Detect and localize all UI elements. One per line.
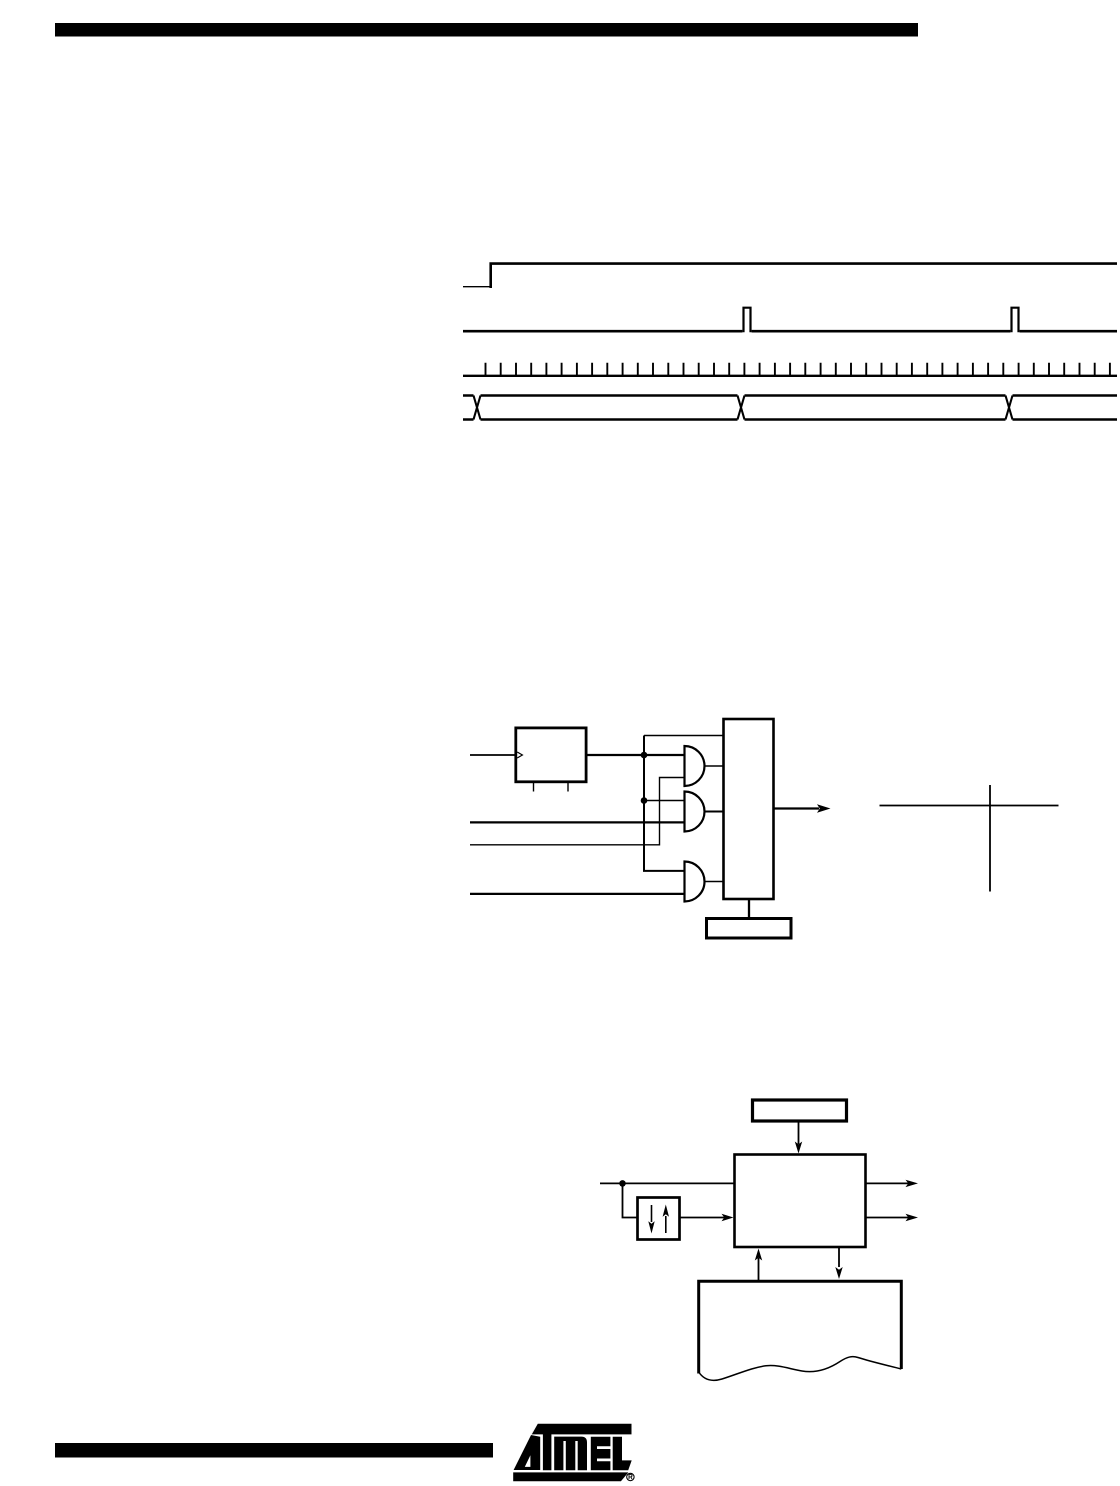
interrupt box — [753, 1100, 847, 1121]
and-gate G3 — [685, 862, 705, 902]
data bus box (torn) — [699, 1281, 902, 1373]
reference cross horizontal line — [880, 805, 1059, 807]
direction box U3 — [638, 1198, 680, 1240]
wire: bus up arrow — [758, 1258, 760, 1280]
wire: input line 3 bent — [470, 778, 684, 845]
Atmel logo: letter A — [514, 1424, 541, 1470]
node: junction dot B — [641, 797, 648, 804]
wire: trace2 low line — [463, 330, 1117, 333]
wire: input line 4 — [470, 893, 684, 895]
reference cross vertical line — [989, 785, 991, 892]
Atmel logo: bottom underline bar — [513, 1472, 628, 1481]
arrowhead: down into bus box — [835, 1267, 842, 1279]
Atmel logo: letter M — [554, 1437, 587, 1471]
and-gate G1 — [685, 746, 705, 786]
wire: trace1 step signal high — [491, 264, 1117, 288]
wire: branch to direction box — [623, 1183, 637, 1217]
Atmel logo: letter E — [591, 1437, 611, 1471]
wire: branch to mux top — [644, 735, 724, 737]
wire: synchronizer output — [587, 754, 685, 756]
wire: clock source line — [600, 1182, 734, 1184]
Atmel logo: letter L — [613, 1437, 632, 1470]
arrowhead: into counter left — [722, 1214, 734, 1221]
torn bottom edge — [699, 1357, 902, 1381]
wire: trace2 pulse 1 — [744, 308, 751, 333]
footer rule bar — [55, 1443, 493, 1458]
wire: input line 2 — [470, 821, 684, 823]
wire: gate2 top input — [644, 800, 684, 802]
synchronizer box U1 — [516, 728, 586, 782]
wire: trace1 low stub — [463, 286, 490, 288]
arrowhead: up into counter — [755, 1249, 762, 1261]
wire: interrupt to counter — [798, 1123, 800, 1145]
wire: gate2 output — [705, 811, 724, 813]
arrowhead: output 1 — [906, 1180, 919, 1187]
down arrow glyph — [651, 1205, 653, 1222]
wire: direction box to counter — [680, 1217, 725, 1219]
bus transition X3 — [1006, 396, 1013, 420]
clock edge chevron — [517, 752, 522, 758]
bus transition X1 — [474, 396, 481, 420]
counter box U4 — [735, 1155, 866, 1248]
wire: counter output 2 — [866, 1217, 909, 1219]
wire: mux output — [774, 807, 820, 809]
wire: bus top line — [463, 394, 1117, 396]
arrowhead: mux output — [817, 804, 831, 813]
node: junction dot A — [641, 752, 648, 759]
wire: vertical branch bus — [644, 736, 684, 871]
wire: bus bottom line — [463, 418, 1117, 420]
wire: clock baseline — [463, 375, 1117, 377]
synchronizer bottom pin stubs — [534, 782, 569, 792]
wire: mux to register — [748, 899, 750, 918]
wire: bus down arrow — [838, 1248, 840, 1267]
wire: gate3 output — [705, 881, 724, 883]
and-gate G2 — [685, 792, 705, 832]
mux box U2 — [724, 719, 774, 899]
wire: gate1 output — [705, 765, 724, 767]
header rule bar — [55, 23, 918, 37]
wire: counter output 1 — [866, 1182, 909, 1184]
arrowhead: down into counter — [795, 1142, 802, 1154]
Atmel logo: top bar and T — [532, 1424, 632, 1471]
arrowhead: output 2 — [906, 1214, 919, 1221]
wire: clock input to synchronizer — [470, 754, 515, 756]
bus transition X2 — [738, 396, 745, 420]
Atmel logo: registered mark — [627, 1473, 634, 1480]
wire: trace2 pulse 2 — [1012, 308, 1019, 333]
register box — [707, 919, 792, 939]
node: junction dot C — [619, 1180, 626, 1187]
clock tick marks — [486, 363, 1110, 376]
up arrow glyph — [665, 1216, 667, 1233]
